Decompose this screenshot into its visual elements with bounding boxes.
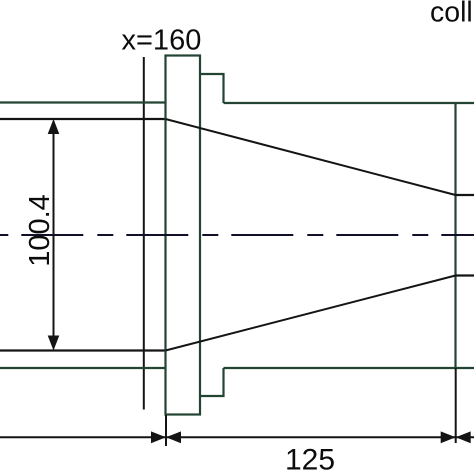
svg-text:collet: collet (430, 0, 474, 29)
body right edge (green) (454, 103, 456, 368)
bore top line left (black) (0, 118, 166, 120)
svg-text:100.4: 100.4 (24, 194, 56, 267)
dimension 100.4 arrow up (48, 119, 60, 134)
body bottom line (green) (224, 367, 474, 369)
bore bottom line left (black) (0, 349, 166, 351)
outer bottom line left (green) (0, 367, 166, 369)
bore top right stub (black) (456, 194, 474, 196)
arrow pair at 166: pointing right (151, 431, 166, 443)
arrow pair at 455.7: pointing right (441, 431, 456, 443)
extension line right (455, 368, 457, 443)
leader line x=160 (143, 57, 145, 410)
dimension 100.4 line (53, 121, 55, 349)
arrow pair at 455.7: pointing left (456, 431, 471, 443)
body top line (green) (224, 102, 474, 104)
bore bottom right stub (black) (456, 274, 474, 276)
step bottom (green) (200, 368, 224, 396)
taper top (black) (166, 119, 456, 195)
dimension 100.4 arrow down (48, 336, 60, 351)
flange rectangle (green) (166, 56, 201, 415)
svg-text:x=160: x=160 (122, 25, 202, 57)
outer top line left (green) (0, 101, 166, 103)
step top (green) (200, 74, 224, 103)
arrow pair at 166: pointing left (166, 431, 181, 443)
svg-text:125: 125 (285, 444, 335, 474)
bottom dimension line (0, 436, 474, 438)
extension line left (165, 415, 167, 446)
taper bottom (black) (166, 276, 456, 351)
centerline dash-dot (0, 234, 474, 236)
